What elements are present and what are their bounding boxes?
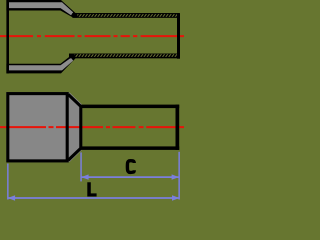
dimension line C [82,176,179,178]
tube right edge (bottom view) [176,105,180,150]
collar body gray fill (bottom view insulation sleeve) [6,92,68,162]
top barrel wall hatched strip [73,13,180,18]
taper border (bottom view) [68,94,81,160]
bottom wall gray fill [9,58,73,71]
barrel end line (right vertical edge, top view) [177,13,180,59]
label L [87,182,96,196]
tube bottom edge (bottom view) [80,146,179,150]
arrow L right [172,195,179,200]
tube top edge (bottom view) [80,105,179,109]
arrow C left [81,174,88,179]
taper gray fill (bottom view cone) [66,93,82,162]
collar border (bottom view) [8,94,67,161]
top wall gray fill [9,2,73,15]
extension line middle (C datum) [80,152,82,181]
centerline (top view, red dash-dot) [0,35,184,37]
bottom wall outline (cross-section, funnel bottom) [6,54,179,74]
extension line right [178,152,180,200]
dimension line L [8,197,179,199]
top wall outline (cross-section, funnel top) [6,0,179,18]
extension line left (L datum) [7,164,9,200]
centerline (bottom view, red dash-dot) [0,126,184,128]
flare rim (left vertical edge, top view) [6,0,9,73]
arrow C right [172,174,179,179]
top strip solid start (junction wedge) [72,13,77,18]
bottom strip solid start (junction wedge) [69,54,75,59]
label C [127,161,134,173]
bottom barrel wall hatched strip [69,54,179,59]
arrow L left [8,195,15,200]
